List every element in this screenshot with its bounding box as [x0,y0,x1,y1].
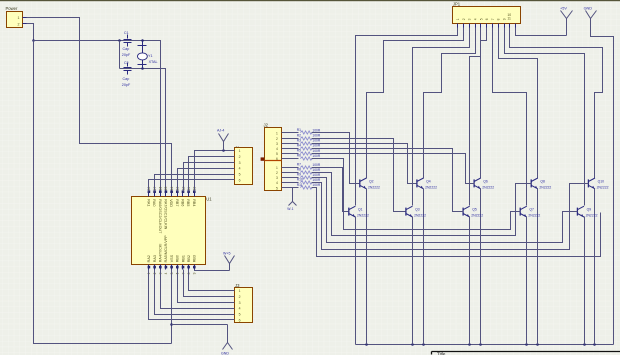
svg-text:100R: 100R [312,168,321,172]
svg-text:RA0: RA0 [152,199,156,206]
svg-text:100R: 100R [312,134,321,138]
svg-text:Q10: Q10 [598,180,605,184]
svg-text:1: 1 [456,18,460,20]
svg-text:2: 2 [239,295,241,299]
svg-text:1: 1 [276,166,278,170]
svg-text:RA5/MCLR/VPP: RA5/MCLR/VPP [164,235,168,263]
svg-text:RA1: RA1 [146,199,150,206]
svg-text:5: 5 [276,152,278,156]
svg-text:6: 6 [239,179,241,183]
svg-text:4: 4 [276,147,278,151]
svg-text:R10: R10 [297,178,303,182]
ground port [227,325,229,343]
wire JP1 pin4 to Q4 collector [424,28,476,179]
resistor R6 [300,157,312,160]
svg-text:+5V: +5V [560,7,567,11]
svg-text:2N2222: 2N2222 [368,186,380,190]
svg-text:Y1: Y1 [148,54,153,58]
wire R9 to base [312,178,578,243]
wire RB3 to port [195,270,230,271]
svg-text:2N2222: 2N2222 [586,214,598,218]
wire R3 to base [312,144,417,184]
wire R6 to base [312,159,521,230]
pin 1 stub [23,17,27,19]
JP1 pin 10 stub [509,24,511,28]
resistor R3 [300,142,312,145]
svg-text:2N2222: 2N2222 [414,214,426,218]
svg-text:5: 5 [239,313,241,317]
wire J2 pin11 [282,187,299,189]
svg-text:RB7: RB7 [175,199,179,206]
svg-text:Q2: Q2 [369,180,374,184]
svg-text:RB6: RB6 [181,199,185,206]
resistor R4 [300,147,312,150]
svg-text:2: 2 [462,18,466,20]
svg-text:Q5: Q5 [472,208,477,212]
wire Q5 emitter [469,217,471,345]
svg-text:5: 5 [276,186,278,190]
JP1 pin 6 stub [486,24,488,28]
transistor Q10 upper [588,178,595,189]
wire J3 pin5 [155,270,235,315]
wire R7 to base [312,168,349,212]
JP1 pin 4 stub [475,24,477,28]
pin 15 RA7/OSC1/CLKIN [165,192,167,197]
svg-text:R3: R3 [297,138,301,142]
junction [141,67,144,70]
pin 13 RB7 [177,192,179,197]
wire JP1 pin5 to Q5 collector [470,28,481,206]
svg-text:20pF: 20pF [122,83,131,87]
wire Q3 emitter [412,217,414,345]
svg-text:JP1: JP1 [453,1,461,6]
wire JP1 pin10 to Q10 collector [510,28,603,179]
junction [365,343,368,346]
wire J2 pin10 [282,182,299,184]
wire R4 to base [312,149,464,212]
svg-text:AJ-4: AJ-4 [217,128,224,132]
wire VSS down [171,270,173,344]
wire left ground rail [34,41,172,344]
svg-text:XTAL: XTAL [149,60,158,64]
svg-text:Power: Power [6,6,18,11]
transistor Q9 lower [577,206,584,217]
wire Q7 emitter [526,217,528,345]
svg-text:15: 15 [164,186,168,190]
svg-text:RB1: RB1 [181,255,185,262]
svg-text:2: 2 [18,23,20,27]
wire J2 pin7 [282,167,299,169]
transistor Q7 lower [520,206,527,217]
pin 3 RA4/T0CKI [160,265,162,270]
svg-text:RA2: RA2 [147,255,151,262]
pin 7 RB1 [182,265,184,270]
pin 14 VDD [171,192,173,197]
wire JP1 pin11 to +5V [516,28,567,36]
wire Q4 emitter [423,189,425,345]
svg-text:J2: J2 [264,123,269,128]
svg-text:1: 1 [147,272,151,274]
wire J1 pin2 [189,157,235,192]
svg-text:16: 16 [159,186,163,190]
transistor Q3 lower [406,206,413,217]
pin 16 RA6/OSC2/CLKOUT [160,192,162,197]
svg-text:100R: 100R [312,183,321,187]
svg-text:2N2222: 2N2222 [357,214,369,218]
svg-text:GND: GND [221,351,229,355]
svg-text:RA6/OSC2/CLKOUT: RA6/OSC2/CLKOUT [158,199,162,234]
pin 6 RB0 [177,265,179,270]
svg-text:9: 9 [503,18,507,20]
pin 2 stub [23,23,27,25]
svg-text:3: 3 [468,18,472,20]
transistor Q5 lower [463,206,470,217]
JP1 pin 8 stub [498,24,500,28]
wire J1 pin1 [195,151,235,192]
wire JP1 pin2 to Q2 collector [367,28,464,179]
svg-text:5: 5 [239,173,241,177]
ground port W-1 [292,188,294,202]
svg-text:18: 18 [147,186,151,190]
svg-text:100R: 100R [312,154,321,158]
wire GND rail right [591,19,614,345]
wire JP1 pin1 to Q1 collector [356,28,458,206]
pin 18 RA1 [148,192,150,197]
JP1 pin 2 stub [463,24,465,28]
junction [411,343,414,346]
svg-text:Q8: Q8 [540,180,545,184]
transistor Q2 upper [360,178,367,189]
svg-text:2: 2 [276,171,278,175]
svg-text:20pF: 20pF [122,53,131,57]
title block [432,351,620,353]
wire R8 to base [312,173,532,236]
svg-text:3: 3 [239,301,241,305]
svg-text:RB5: RB5 [186,199,190,206]
junction [118,39,121,42]
JP1 pin 5 stub [480,24,482,28]
svg-text:RB2: RB2 [187,255,191,262]
svg-text:6: 6 [239,319,241,323]
wire JP1 pin3 to Q3 collector [413,28,470,206]
svg-text:4: 4 [239,167,241,171]
svg-text:6: 6 [485,18,489,20]
wire J3 pin2 [184,270,235,297]
pin 9 RB3 [194,265,196,270]
wire cap branch [119,41,121,69]
pin 2 RA3 [154,265,156,270]
svg-text:Q1: Q1 [358,208,363,212]
wire R11 to base [312,188,601,257]
svg-text:2N2222: 2N2222 [425,186,437,190]
wire J3 pin1 [189,270,235,291]
wire OSC1 rail [34,41,161,192]
junction [583,343,586,346]
pin 1 RA2 [148,265,150,270]
wire Q6 emitter [480,189,482,345]
svg-text:RB4: RB4 [192,199,196,206]
wire J1 pin5 [155,175,235,192]
wire JP1 pin8 to Q8 collector [499,28,538,179]
svg-text:W+5: W+5 [223,252,231,256]
wire J2 pin5 [282,153,299,155]
svg-text:R4: R4 [297,143,301,147]
wire R10 to base [312,183,589,250]
svg-text:100R: 100R [312,139,321,143]
junction [536,343,539,346]
crystal Y1 [142,41,144,69]
power port +5V at J1 [222,149,225,152]
wire J2 pin4 [282,148,299,150]
JP1 pin 3 stub [469,24,471,28]
svg-text:2N2222: 2N2222 [528,214,540,218]
wire OSC2 rail [120,69,166,192]
svg-text:C1: C1 [124,31,129,35]
svg-text:Cap: Cap [123,47,130,51]
svg-text:3: 3 [239,161,241,165]
svg-text:100R: 100R [312,149,321,153]
svg-text:2N2222: 2N2222 [482,186,494,190]
svg-text:Cap: Cap [123,77,130,81]
svg-text:R1: R1 [297,128,301,132]
wire J2 pin3 [282,143,299,145]
resistor R10 [300,181,312,184]
svg-text:Q4: Q4 [426,180,431,184]
wire JP1 pin9 to Q9 collector [505,28,585,206]
svg-text:R2: R2 [297,133,301,137]
pin 8 RB2 [188,265,190,270]
junction [422,343,425,346]
svg-text:1: 1 [18,16,20,20]
svg-text:Q9: Q9 [587,208,592,212]
wire J2 pin1 [282,132,299,134]
wire JP1 pin6 to Q6 collector [481,28,487,179]
junction [593,343,596,346]
J2 divider [265,160,282,162]
JP1 pin 9 stub [504,24,506,28]
svg-text:2: 2 [239,155,241,159]
svg-text:6: 6 [276,157,278,161]
svg-text:RA4/T0CKI: RA4/T0CKI [159,244,163,263]
svg-text:100R: 100R [312,128,321,132]
svg-text:R6: R6 [297,154,301,158]
svg-text:Q7: Q7 [529,208,534,212]
svg-text:100R: 100R [312,144,321,148]
svg-text:100R: 100R [312,163,321,167]
transistor Q6 upper [474,178,481,189]
svg-text:RB0: RB0 [176,255,180,262]
junction [32,39,35,42]
wire JP1 pin7 to Q7 collector [493,28,527,206]
junction [468,343,471,346]
svg-text:Q6: Q6 [483,180,488,184]
svg-text:1: 1 [239,289,241,293]
svg-text:Q3: Q3 [415,208,420,212]
svg-text:4: 4 [239,307,241,311]
wire power pin1 to VDD [27,18,172,192]
power port above J3 [229,264,231,271]
transistor Q8 upper [531,178,538,189]
transistor Q1 lower [349,206,356,217]
resistor R9 [300,176,312,179]
svg-text:2N2222: 2N2222 [539,186,551,190]
wire to gnd port [170,323,173,326]
junction [141,39,144,42]
svg-text:1: 1 [276,132,278,136]
svg-text:3: 3 [276,142,278,146]
pin 10 RB4 [194,192,196,197]
svg-text:VSS: VSS [170,254,174,262]
svg-text:VDD: VDD [169,199,173,207]
svg-text:RB3: RB3 [193,255,197,262]
wire R1 to base [312,133,360,184]
pin 4 RA5/MCLR/VPP [165,265,167,270]
wire R2 to base [312,139,406,212]
svg-text:RA3: RA3 [153,255,157,262]
wire J1 pin4 [178,169,235,192]
svg-text:100R: 100R [312,178,321,182]
wire emitter rail [356,344,614,346]
transistor Q4 upper [417,178,424,189]
svg-text:R8: R8 [297,168,301,172]
svg-text:11: 11 [507,16,511,20]
wire J1 pin6 [149,180,235,192]
svg-text:R7: R7 [297,163,301,167]
pin 5 VSS [171,265,173,270]
wire Q8 emitter [537,189,539,345]
pin 17 RA0 [154,192,156,197]
svg-text:2: 2 [276,137,278,141]
wire power pin2 down [27,24,34,41]
pin 12 RB6 [182,192,184,197]
svg-text:7: 7 [491,18,495,20]
svg-text:GND: GND [584,7,593,11]
resistor R2 [300,137,312,140]
resistor R5 [300,152,312,155]
svg-text:14: 14 [170,186,174,190]
svg-text:8: 8 [497,18,501,20]
wire J3 pin6 [149,270,235,320]
svg-text:2N2222: 2N2222 [597,186,609,190]
svg-text:R11: R11 [297,183,303,187]
JP1 pin 1 stub [457,24,459,28]
resistor R8 [300,171,312,174]
wire R5 to base [312,154,475,184]
wire Q2 emitter [366,189,368,345]
wire J2 pin6 [282,158,299,160]
svg-text:2N2222: 2N2222 [471,214,483,218]
svg-text:RA7/OSC1/CLKIN: RA7/OSC1/CLKIN [163,199,167,229]
svg-text:3: 3 [276,176,278,180]
svg-text:100R: 100R [312,173,321,177]
svg-text:4: 4 [276,181,278,185]
svg-text:9: 9 [193,272,197,274]
pin 11 RB5 [188,192,190,197]
microcontroller U1 [132,197,206,265]
wire J2 pin9 [282,177,299,179]
svg-text:R5: R5 [297,149,301,153]
resistor R11 [300,186,312,189]
resistor R7 [300,166,312,169]
svg-text:U1: U1 [206,197,212,202]
junction [525,343,528,346]
resistor R1 [300,131,312,134]
svg-text:Title: Title [437,352,446,355]
wire J2 pin2 [282,138,299,140]
svg-text:R9: R9 [297,173,301,177]
wire Q1 emitter [355,217,357,345]
svg-text:1: 1 [239,149,241,153]
svg-text:5: 5 [479,18,483,20]
junction [479,343,482,346]
JP1 pin 11 stub [515,24,517,28]
wire J2 pin8 [282,172,299,174]
wire J1 pin3 [184,163,235,192]
svg-text:W-1: W-1 [287,207,293,211]
JP1 pin 7 stub [492,24,494,28]
wire J3 pin3 [178,270,235,303]
wire Q10 emitter [594,189,596,345]
svg-text:4: 4 [164,272,168,274]
wire Q9 emitter [584,217,586,345]
wire J3 pin4 [161,270,235,309]
svg-text:4: 4 [474,18,478,20]
